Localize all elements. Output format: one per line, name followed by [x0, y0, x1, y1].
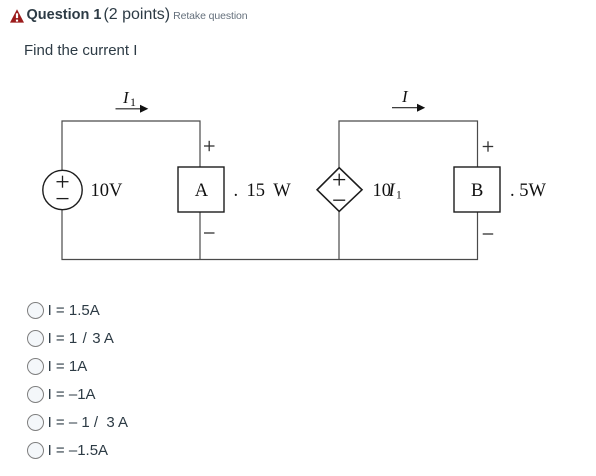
plus terminal above A: [204, 141, 215, 151]
svg-text:B: B: [471, 181, 483, 201]
svg-text:10V: 10V: [91, 181, 124, 201]
dependent source 10I1: [317, 168, 362, 212]
svg-text:1: 1: [396, 190, 402, 202]
minus terminal below B: [483, 233, 494, 235]
current arrow I: [392, 104, 425, 112]
wire right-loop top: [339, 121, 478, 168]
svg-text:1: 1: [130, 95, 136, 109]
header: [27, 6, 248, 24]
wire bottom: [62, 210, 478, 260]
svg-text:I: I: [122, 88, 130, 107]
voltage source V1 10V: [43, 170, 82, 209]
element B box: [454, 167, 500, 212]
svg-text:. 5W: . 5W: [510, 181, 547, 201]
prompt: [24, 42, 137, 59]
svg-text:I: I: [401, 87, 409, 106]
svg-text:. 15 W: . 15 W: [234, 181, 292, 201]
svg-text:A: A: [195, 181, 209, 201]
wire below dependent source: [338, 211, 340, 259]
answer options: [27, 301, 100, 319]
plus terminal above B: [483, 141, 494, 151]
current arrow I1: [116, 105, 149, 113]
svg-text:I: I: [388, 181, 396, 201]
minus terminal below A: [204, 232, 215, 234]
circuit schematic: [0, 0, 596, 290]
wire left-loop top: [62, 121, 200, 171]
wire below element A: [199, 212, 201, 260]
header warning icon: [10, 9, 24, 23]
element A box: [178, 167, 224, 212]
